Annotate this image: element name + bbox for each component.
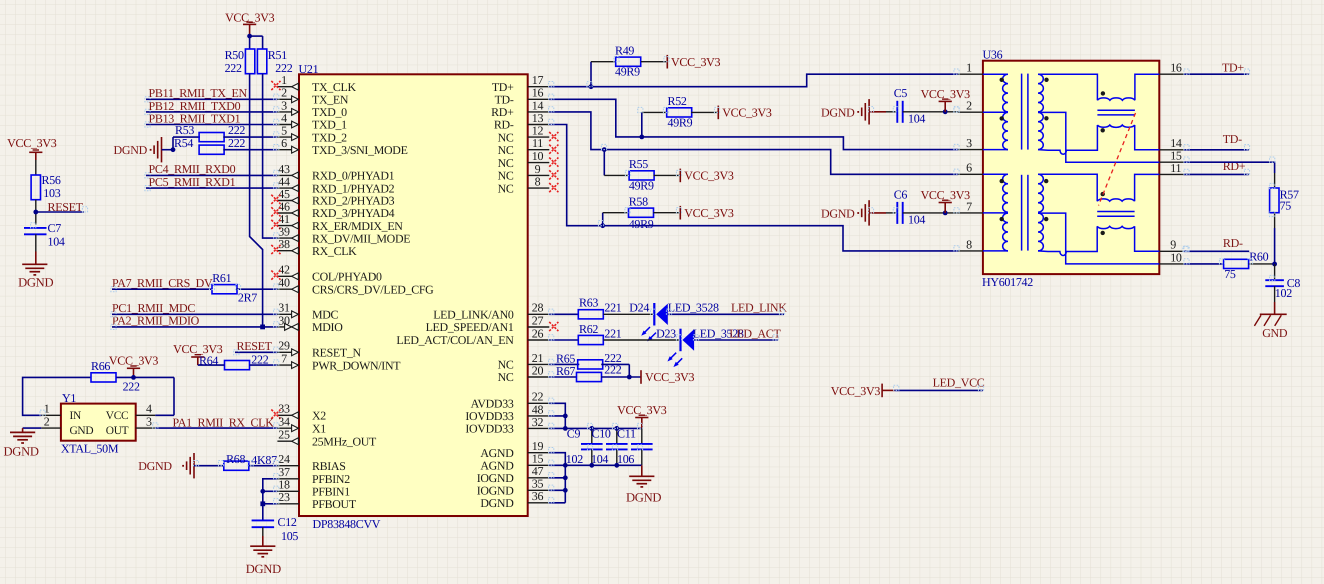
R60 value 75: [1224, 267, 1236, 281]
wire RESET stub: [36, 211, 84, 213]
wire R57 to junction: [1274, 212, 1276, 264]
svg-text:C5: C5: [894, 86, 908, 100]
svg-text:VCC_3V3: VCC_3V3: [684, 169, 734, 183]
U21 pin 21 NC: [498, 351, 550, 372]
wire PC5_RMII_RXD1 to pin 44: [146, 187, 277, 189]
junction PFBIN1: [260, 489, 265, 494]
U21 pin 47 IOGND: [477, 464, 550, 485]
junction RD+/R55: [602, 147, 607, 152]
wire RD+ (U21 pin14 to U36 pin6): [549, 112, 958, 174]
U36 common-mode choke winding (RD+): [1097, 199, 1134, 201]
U21 pin 26 LED_ACT/COL/AN_EN: [396, 326, 549, 347]
wire C12 to ground: [262, 527, 264, 546]
resistor R67: [556, 364, 602, 381]
svg-text:DP83848CVV: DP83848CVV: [313, 517, 381, 531]
svg-text:R55: R55: [629, 157, 648, 171]
U36 winding dot: [1101, 128, 1105, 132]
svg-text:49R9: 49R9: [629, 178, 654, 192]
U21 pin 42 COL/PHYAD0: [271, 263, 382, 284]
svg-text:6: 6: [281, 136, 287, 150]
U21 pin 30 MDIO: [277, 313, 343, 334]
U21 pin 39 RX_DV/MII_MODE: [277, 225, 410, 246]
svg-text:PB13_RMII_TXD1: PB13_RMII_TXD1: [149, 111, 241, 125]
U36 pin 15: [1159, 149, 1183, 163]
svg-text:NC: NC: [498, 143, 514, 157]
svg-text:75: 75: [1280, 199, 1292, 213]
U36 common-mode choke winding (TD-): [1097, 125, 1134, 127]
net label RD-: [1223, 236, 1243, 250]
svg-text:LED_ACT/COL/AN_EN: LED_ACT/COL/AN_EN: [396, 333, 514, 347]
resistor R66: [91, 359, 116, 382]
svg-text:3: 3: [966, 136, 972, 150]
svg-text:GND: GND: [70, 425, 94, 437]
svg-text:10: 10: [1170, 250, 1182, 264]
svg-text:7: 7: [281, 352, 287, 366]
U21 pin 1 TX_CLK: [271, 73, 356, 94]
C5 value 104: [908, 111, 925, 125]
R54 value 222: [228, 136, 245, 150]
power port VCC_3V3 (at R66): [109, 354, 159, 378]
wire pin 26 to R62: [549, 339, 578, 341]
U21 pin 43 RXD_0/PHYAD1: [277, 162, 394, 183]
svg-text:COL/PHYAD0: COL/PHYAD0: [312, 270, 382, 284]
U21 pin 20 NC: [498, 363, 550, 384]
junction C6/VCC: [943, 211, 948, 216]
ground DGND (below Y1 pin 2): [4, 428, 42, 458]
D23 type LED_3528: [693, 326, 744, 340]
wire TD+ (U21 pin17 to U36 pin1): [549, 74, 958, 87]
R51 value 222: [275, 61, 292, 75]
svg-text:DGND: DGND: [4, 444, 39, 458]
U36 pin 10: [1159, 250, 1183, 264]
svg-text:DGND: DGND: [18, 276, 53, 290]
U21 pin 45 RXD_2/PHYAD3: [271, 187, 394, 208]
svg-text:XTAL_50M: XTAL_50M: [61, 442, 119, 456]
resistor R63: [578, 296, 603, 319]
U21 pin 18 PFBIN1: [277, 478, 350, 499]
svg-text:49R9: 49R9: [668, 116, 693, 130]
wire C8 to GND: [1274, 286, 1276, 314]
R66 value 222: [123, 380, 140, 394]
wire Y1 pin1 to R66: [23, 377, 91, 415]
wire R52 to VCC: [691, 111, 718, 113]
net label TD+: [1222, 61, 1244, 75]
svg-text:7: 7: [966, 199, 972, 213]
net label PB13_RMII_TXD1: [149, 111, 241, 125]
wire R62 to D23: [604, 339, 681, 341]
svg-text:24: 24: [278, 452, 290, 466]
U36 wire choke to pin 14: [1135, 125, 1160, 150]
capacitor C9: [567, 426, 603, 449]
R56 value 103: [43, 186, 60, 200]
wire D23 to LED_ACT: [694, 339, 778, 341]
svg-text:R61: R61: [212, 271, 231, 285]
svg-text:3: 3: [146, 415, 152, 429]
C12 value 105: [281, 529, 298, 543]
U36 pin 3: [958, 136, 983, 150]
net label PB11_RMII_TX_EN: [149, 86, 248, 100]
U21 designator: [299, 62, 319, 76]
svg-text:11: 11: [1170, 161, 1181, 175]
U21 pin 33 X2: [271, 402, 326, 423]
Y1 pin 2: [41, 415, 61, 429]
svg-text:38: 38: [278, 237, 290, 251]
U21 pin 17 TD+: [492, 73, 549, 94]
C8 value 102: [1275, 286, 1292, 300]
U21 pin 22 AVDD33: [471, 390, 550, 411]
U36 secondary winding top: [1038, 74, 1043, 112]
U21 pin 35 IOGND: [477, 477, 550, 498]
U21 pin 10 NC: [498, 149, 559, 170]
wire DGND to R68: [194, 465, 224, 467]
R65 value 222: [604, 351, 621, 365]
U36 winding dot: [1101, 231, 1105, 235]
U36 winding dot: [1101, 91, 1105, 95]
U36 wire sec4-top to pin 10: [1038, 213, 1159, 264]
svg-text:222: 222: [228, 136, 245, 150]
U36 winding dot: [1101, 192, 1105, 196]
capacitor C5: [894, 86, 908, 123]
junction TD+/R49: [589, 84, 594, 89]
U21 pin 34 X1: [277, 415, 326, 436]
power port VCC_3V3 (at R58): [680, 206, 734, 220]
svg-text:VCC_3V3: VCC_3V3: [684, 206, 734, 220]
net label PA7_RMII_CRS_DV: [112, 276, 213, 290]
svg-text:221: 221: [604, 327, 621, 341]
wire pin 21 to R65: [549, 363, 579, 365]
U36 pin 16: [1159, 61, 1183, 75]
svg-text:R63: R63: [579, 296, 598, 310]
wire cap top leads: [592, 428, 642, 444]
wire C7 to ground: [35, 234, 37, 264]
capacitor C11: [617, 426, 653, 449]
wire R49 to VCC: [641, 61, 667, 63]
wire PB11_RMII_TX_EN to pin 2: [146, 98, 277, 100]
U21 pin 7 PWR_DOWN/INT: [277, 352, 401, 373]
power port VCC_3V3 (LED_VCC): [831, 384, 895, 398]
capacitor C8: [1265, 276, 1300, 290]
C6 value 104: [908, 212, 925, 226]
svg-text:20: 20: [532, 363, 544, 377]
wire R58 tap: [603, 213, 629, 226]
junction IOVDD33 pin32: [563, 426, 568, 431]
U36 wire sec2-bottom to choke lower (with hop): [1038, 125, 1097, 154]
U21 pin 25 25MHz_OUT: [277, 428, 377, 449]
U21 pin 2 TX_EN: [277, 86, 348, 107]
resistor R60: [1224, 250, 1269, 269]
svg-text:C9: C9: [567, 426, 581, 440]
U36 core (bottom): [1022, 175, 1028, 251]
net label RD+: [1223, 159, 1246, 173]
svg-text:106: 106: [617, 452, 634, 466]
power port VCC_3V3 (at C6): [921, 188, 971, 213]
U36 wire secondary to choke (TD): [1038, 74, 1097, 100]
wire cap bottom leads: [592, 449, 642, 465]
svg-text:222: 222: [228, 123, 245, 137]
wire DGND to C5: [869, 111, 897, 113]
U36 pin 6: [958, 161, 983, 175]
svg-text:8: 8: [966, 237, 972, 251]
U36 crossover marker (red dashed): [1099, 113, 1136, 206]
R57 value 75: [1280, 199, 1292, 213]
svg-text:R58: R58: [629, 194, 648, 208]
svg-text:25: 25: [278, 428, 290, 442]
U21 pin 36 DGND: [480, 489, 549, 510]
U21 pin 12 NC: [498, 124, 559, 145]
U21 pin 44 RXD_1/PHYAD2: [277, 175, 394, 196]
U36 wire secondary to choke (RD): [1038, 174, 1097, 201]
net label PA1_RMII_RX_CLK: [173, 415, 275, 429]
wire R51 to pin 39 (RX_DV strap): [263, 74, 278, 238]
net label LED_VCC: [933, 376, 985, 390]
svg-text:Y1: Y1: [62, 391, 76, 405]
svg-text:49R9: 49R9: [629, 217, 654, 231]
svg-text:26: 26: [532, 326, 544, 340]
junction R66/VCC: [131, 375, 136, 380]
crystal oscillator Y1 body: [61, 391, 136, 441]
resistor R62: [578, 322, 603, 345]
U36 winding dot: [1000, 78, 1004, 82]
ground DGND (at C6): [821, 200, 869, 225]
ground DGND (at C5): [821, 99, 869, 124]
C10 value 104: [591, 452, 608, 466]
wire RD+ (pin 11): [1184, 173, 1249, 175]
wire R60 to junction: [1249, 263, 1275, 265]
U36 wire sec4-bottom to choke lower (with hop): [1038, 226, 1097, 255]
U21 pin 32 IOVDD33: [465, 415, 549, 436]
svg-text:105: 105: [281, 529, 298, 543]
power port VCC_3V3 (top, above R50/R51): [225, 10, 275, 36]
resistor R50: [225, 48, 255, 73]
wire PFBOUT to C12: [262, 504, 264, 521]
C7 value 104: [48, 235, 65, 249]
wire RD- (pin 9): [1184, 250, 1250, 252]
wire DGND to R53/R54: [162, 137, 200, 150]
capacitor C10: [592, 426, 628, 449]
R63 value 221: [604, 301, 621, 315]
power port VCC_3V3 (at R49): [667, 55, 720, 69]
wire C5 to U36 pin 2: [903, 111, 959, 113]
power port VCC_3V3 (at C5): [921, 87, 971, 112]
svg-text:HY601742: HY601742: [982, 275, 1033, 289]
svg-text:RBIAS: RBIAS: [312, 459, 346, 473]
wire pin 28 to R63: [549, 313, 578, 315]
svg-text:102: 102: [566, 452, 583, 466]
net label PB12_RMII_TXD0: [149, 99, 241, 113]
U36 pin 9: [1159, 238, 1183, 252]
resistor R61: [212, 271, 237, 294]
power port VCC_3V3 (at R64): [173, 342, 223, 365]
resistor R49: [615, 43, 641, 66]
svg-text:PA2_RMII_MDIO: PA2_RMII_MDIO: [112, 313, 200, 327]
svg-text:1: 1: [966, 61, 972, 75]
U36 pin 2: [958, 99, 983, 113]
svg-text:222: 222: [123, 380, 140, 394]
R68 value 4K87: [251, 453, 277, 467]
U21 pin 38 RX_CLK: [271, 237, 357, 258]
svg-text:R53: R53: [175, 123, 194, 137]
U21 pin 5 TXD_2: [277, 124, 347, 145]
U36 pin 8: [958, 237, 983, 251]
U36 winding dot: [1044, 116, 1048, 120]
svg-text:TXD_3/SNI_MODE: TXD_3/SNI_MODE: [312, 143, 408, 157]
junction TD-/R52: [639, 135, 644, 140]
U21 part number DP83848CVV: [313, 517, 381, 531]
transformer U36 body: [983, 61, 1159, 274]
U36 core (top): [1022, 74, 1028, 150]
svg-text:U36: U36: [983, 48, 1003, 62]
svg-text:R62: R62: [579, 322, 598, 336]
C11 value 106: [617, 452, 634, 466]
ground DGND (at R53/R54): [114, 137, 162, 162]
svg-text:6: 6: [966, 161, 972, 175]
wire R64 to pin 7: [250, 364, 278, 366]
compile indicator marks: [31, 57, 1275, 504]
svg-text:RD+: RD+: [1223, 159, 1246, 173]
U21 pin 31 MDC: [277, 301, 338, 322]
svg-text:C6: C6: [894, 187, 908, 201]
svg-text:VCC_3V3: VCC_3V3: [722, 106, 772, 120]
resistor R56: [31, 173, 61, 200]
svg-text:PWR_DOWN/INT: PWR_DOWN/INT: [312, 358, 401, 372]
U36 common-mode choke winding (RD-): [1097, 226, 1134, 228]
U21 pin 6 TXD_3/SNI_MODE: [277, 136, 407, 157]
net label PC4_RMII_RXD0: [149, 162, 236, 176]
wire VCC to R64: [198, 364, 225, 366]
resistor R53: [175, 123, 224, 142]
wire PA2_RMII_MDIO to pin 30: [112, 326, 277, 328]
ground DGND (at R68): [138, 453, 194, 478]
junction PFBOUT: [260, 501, 265, 506]
junction C10 top: [614, 426, 619, 431]
U21 pin 48 IOVDD33: [465, 402, 549, 423]
wire pin 15 to R57: [1184, 162, 1275, 188]
junction IOGND pin47: [563, 475, 568, 480]
svg-text:27: 27: [532, 313, 544, 327]
svg-text:IN: IN: [70, 410, 81, 422]
capacitor C7: [24, 221, 61, 235]
svg-text:DGND: DGND: [626, 491, 661, 505]
R50 value 222: [225, 61, 242, 75]
svg-text:RD-: RD-: [1223, 236, 1243, 250]
wire junction to C8: [1274, 264, 1276, 280]
Y1 pin 1: [41, 402, 61, 416]
D24 type LED_3528: [668, 301, 719, 315]
svg-text:36: 36: [532, 489, 544, 503]
svg-text:VCC_3V3: VCC_3V3: [671, 55, 721, 69]
svg-text:R60: R60: [1249, 250, 1268, 264]
svg-text:GND: GND: [1262, 326, 1288, 340]
wire R55 to VCC: [654, 174, 681, 176]
svg-text:42: 42: [278, 263, 290, 277]
svg-text:DGND: DGND: [246, 562, 281, 576]
junction R57/R60/C8: [1272, 262, 1277, 267]
U36 designator: [983, 48, 1003, 62]
svg-text:PA1_RMII_RX_CLK: PA1_RMII_RX_CLK: [173, 415, 275, 429]
svg-text:102: 102: [1275, 286, 1292, 300]
svg-text:C10: C10: [592, 426, 611, 440]
junction C9 top: [589, 426, 594, 431]
U21 pin 11 NC: [498, 136, 559, 157]
R62 value 221: [604, 327, 621, 341]
svg-text:25MHz_OUT: 25MHz_OUT: [312, 434, 377, 448]
resistor R55: [629, 157, 654, 180]
U36 wire choke to pin 9: [1135, 226, 1160, 251]
U36 pin 7: [958, 199, 983, 213]
svg-text:VCC_3V3: VCC_3V3: [7, 136, 57, 150]
svg-text:VCC_3V3: VCC_3V3: [831, 384, 881, 398]
junction R65/R67: [627, 375, 632, 380]
wire R66 to VCC junction to Y1 pin 4: [117, 377, 175, 415]
svg-text:RX_CLK: RX_CLK: [312, 244, 357, 258]
junction AGND pin15: [563, 463, 568, 468]
wire R54 to pin 6: [223, 149, 277, 151]
svg-text:DGND: DGND: [114, 143, 148, 157]
wire PFB bus (pins 37/18/23): [263, 479, 278, 504]
R55 value 49R9: [629, 178, 654, 192]
U36 choke core (bottom): [1097, 212, 1134, 217]
svg-text:221: 221: [604, 301, 621, 315]
net label RESET (left): [48, 200, 84, 214]
svg-text:D23: D23: [656, 326, 676, 340]
svg-text:2: 2: [44, 415, 50, 429]
U21 pin 9 NC: [498, 162, 559, 183]
wire D24 to LED_LINK: [668, 313, 784, 315]
net label TD-: [1223, 132, 1242, 146]
resistor R64: [199, 354, 250, 370]
wire PB13_RMII_TXD1 to pin 4: [146, 124, 277, 126]
svg-text:OUT: OUT: [106, 425, 129, 437]
svg-text:R49: R49: [615, 43, 634, 57]
svg-text:2R7: 2R7: [238, 291, 257, 305]
svg-text:C11: C11: [617, 426, 636, 440]
U21 pin 46 RXD_3/PHYAD4: [271, 199, 394, 220]
R52 value 49R9: [668, 116, 693, 130]
svg-text:TD-: TD-: [1223, 132, 1242, 146]
resistor R58: [629, 194, 654, 217]
ground DGND (below C7): [18, 264, 53, 289]
svg-text:LED_3528: LED_3528: [668, 301, 719, 315]
wire C11 to ground: [641, 465, 643, 476]
svg-text:NC: NC: [498, 370, 514, 384]
junction MDIO/R50: [260, 325, 265, 330]
U21 pin 13 RD-: [494, 111, 549, 132]
svg-text:R66: R66: [91, 359, 110, 373]
ground DGND (below C11): [626, 476, 661, 504]
svg-text:16: 16: [1170, 61, 1182, 75]
svg-text:4K87: 4K87: [251, 453, 277, 467]
U36 common-mode choke winding (TD+): [1097, 98, 1135, 100]
resistor R54: [174, 136, 224, 154]
wire AGND/IOGND rail: [549, 453, 642, 503]
U21 pin 8 NC: [498, 175, 559, 196]
U36 winding dot: [1044, 78, 1048, 82]
U36 pin 14: [1159, 136, 1183, 150]
power port VCC_3V3 (at R52): [718, 106, 772, 120]
junction at VCC/R50/R51: [247, 34, 252, 39]
wire PC1_RMII_MDC to pin 31: [112, 313, 277, 315]
svg-text:DGND: DGND: [138, 459, 172, 473]
power port VCC_3V3 (at R55): [680, 169, 734, 183]
junction DGND/R53/R54: [171, 147, 176, 152]
wire RD- (U21 pin13 to U36 pin8): [549, 125, 958, 251]
capacitor C12: [252, 515, 297, 529]
svg-text:R67: R67: [556, 364, 575, 378]
wire R65/R67 to VCC: [601, 364, 641, 377]
wire DGND to C6: [869, 212, 897, 214]
LED D24: [629, 301, 668, 342]
svg-text:32: 32: [532, 415, 544, 429]
